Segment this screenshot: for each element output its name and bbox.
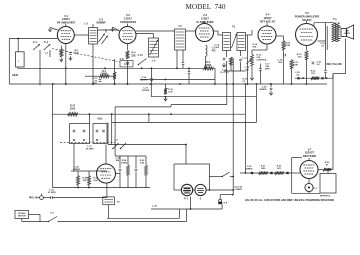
svg-text:SPKR: SPKR bbox=[344, 33, 350, 35]
label R47 2200 bbox=[70, 105, 76, 111]
junction bus x180 bbox=[179, 83, 181, 85]
wire corner y209 up bbox=[190, 197, 192, 210]
svg-text:T-2: T-2 bbox=[178, 26, 182, 28]
svg-text:4.7K: 4.7K bbox=[168, 90, 173, 93]
svg-text:1 MEG: 1 MEG bbox=[121, 163, 128, 165]
wire V7 left v bbox=[291, 157, 293, 193]
wire V4 bottom bbox=[266, 44, 268, 50]
svg-text:470: 470 bbox=[75, 52, 80, 55]
note capacitors bbox=[245, 198, 334, 202]
label C38 bbox=[116, 158, 122, 163]
label C30 20MFD bbox=[73, 167, 81, 172]
label AER bbox=[12, 73, 19, 77]
resistor R24 bbox=[127, 165, 130, 175]
svg-text:12SK7: 12SK7 bbox=[62, 17, 70, 21]
bandswitch wafer S1A bbox=[70, 124, 90, 144]
wire diode load v bbox=[247, 35, 249, 84]
junction y114 x89 bbox=[89, 113, 91, 115]
ground R10 bbox=[164, 97, 167, 101]
ground C4 bbox=[69, 56, 72, 60]
tube V4 bbox=[258, 26, 276, 44]
wire C18B bottom bbox=[260, 71, 262, 85]
junction bus x291.5 bbox=[291, 83, 293, 85]
wire C15 drop bottom bbox=[151, 81, 153, 84]
wire V6 pin right bbox=[116, 173, 121, 175]
wire motor to bus bbox=[29, 214, 41, 216]
tube V6 bbox=[97, 164, 116, 183]
wire V1 top bbox=[65, 24, 67, 27]
wire R28 bottom bbox=[77, 185, 79, 188]
switch S2B bbox=[120, 143, 126, 149]
wire L4 top bbox=[153, 34, 155, 39]
svg-text:T-4: T-4 bbox=[333, 18, 337, 21]
junction bus x306.5 bbox=[306, 83, 308, 85]
junction y187 x89 bbox=[88, 187, 90, 189]
output transformer T4 core bbox=[334, 23, 337, 42]
svg-text:50L6GT: 50L6GT bbox=[302, 18, 312, 22]
wire V6 bottom bbox=[106, 183, 108, 198]
svg-text:R-3: R-3 bbox=[102, 71, 106, 73]
wire wafer drop left bbox=[73, 152, 75, 171]
wire motor bottom bbox=[21, 219, 23, 222]
label R14 bbox=[285, 42, 291, 48]
junction bus x127.5 bbox=[127, 83, 129, 85]
junction chain3 bbox=[287, 172, 289, 174]
junction plug bbox=[232, 194, 234, 196]
junction bus x245.4 bbox=[245, 83, 247, 85]
tube V7 bbox=[300, 161, 318, 179]
junction bus x150.5 bbox=[150, 83, 152, 85]
junction bus x65.8 bbox=[65, 83, 67, 85]
label R4 bbox=[131, 52, 136, 58]
pilot lamp P3 bbox=[305, 183, 313, 191]
wire V5 screen to T4 bbox=[318, 40, 326, 42]
capacitor C31 bbox=[51, 196, 53, 199]
svg-text:470K: 470K bbox=[293, 64, 299, 67]
svg-text:C-3: C-3 bbox=[45, 53, 49, 55]
junction switch row end bbox=[185, 144, 187, 146]
wire V7 in bbox=[292, 172, 300, 174]
wire T3 out v bbox=[251, 30, 253, 35]
svg-text:L-3: L-3 bbox=[84, 23, 88, 26]
junction y114 x112 bbox=[111, 113, 113, 115]
wire x233 vertical bbox=[232, 58, 234, 195]
label V5 50L6GT POWER AMPLIFIER bbox=[295, 11, 320, 22]
wire V1 bottom bbox=[65, 44, 67, 85]
ground R1 bbox=[60, 58, 63, 62]
wire R16 bus bbox=[291, 69, 293, 85]
wire x53 vertical bbox=[52, 84, 54, 188]
label C8 bbox=[120, 58, 125, 61]
wire under T3 h bbox=[224, 70, 245, 72]
label C17 bbox=[242, 58, 248, 60]
capacitor in wafer 1b bbox=[83, 130, 86, 132]
svg-text:3-30: 3-30 bbox=[124, 63, 129, 66]
junction y69 x141 bbox=[141, 67, 143, 69]
wire R24 top bbox=[127, 156, 129, 165]
switch S1 osc bbox=[138, 59, 147, 66]
wire lamp left h bbox=[174, 189, 181, 191]
svg-text:L-4: L-4 bbox=[152, 60, 156, 63]
tube V1 bbox=[57, 27, 74, 44]
wire S5 h bbox=[209, 176, 222, 178]
svg-text:VOL: VOL bbox=[97, 118, 103, 121]
svg-text:.05 MFD: .05 MFD bbox=[85, 149, 94, 151]
junction x148 bbox=[148, 113, 150, 115]
speaker field coil box bbox=[320, 174, 336, 194]
svg-text:100: 100 bbox=[216, 47, 220, 49]
resistor R4 bbox=[126, 51, 129, 59]
label P2 bbox=[199, 199, 202, 201]
wire C22 bottom bbox=[325, 73, 327, 78]
loop antenna L1 bbox=[16, 52, 25, 67]
junction y79 x165 bbox=[165, 79, 167, 81]
title MODEL 740 bbox=[186, 3, 226, 11]
wire V2 plate to T2 bbox=[136, 30, 175, 32]
svg-text:470K: 470K bbox=[285, 44, 291, 47]
padder capacitor box C12 bbox=[120, 61, 133, 67]
junction chain0 bbox=[245, 172, 247, 174]
wire V7 bottom h bbox=[292, 192, 320, 194]
svg-text:R-9: R-9 bbox=[206, 62, 210, 64]
capacitor C13A bbox=[182, 63, 185, 65]
wire T4 lead a bbox=[325, 23, 327, 70]
wire motor drop bbox=[39, 215, 41, 222]
wire corner y218 up bbox=[179, 209, 181, 218]
phono jack J1 bbox=[38, 194, 44, 200]
wire plug bottom stub bbox=[221, 204, 223, 209]
label C17B 005MFD bbox=[265, 64, 270, 71]
label C6 300MMF bbox=[96, 19, 106, 25]
wire x245 vertical bbox=[244, 84, 246, 173]
label R9 47000 bbox=[205, 62, 212, 67]
wire V3 plate to T3 bbox=[214, 30, 219, 32]
svg-text:12SA7: 12SA7 bbox=[124, 16, 132, 20]
label SPKR FLD bbox=[320, 196, 331, 198]
label V6 notes bbox=[85, 146, 94, 151]
junction bus x114.5 bbox=[114, 83, 116, 85]
wire B+ vertical bbox=[332, 74, 334, 170]
wire V7 to lamp bbox=[308, 179, 310, 184]
wire V5 plate up bbox=[313, 23, 315, 26]
svg-text:CONTROL: CONTROL bbox=[257, 60, 268, 62]
wire lamp link bbox=[193, 189, 195, 191]
wire bottom line y209 bbox=[151, 208, 222, 210]
wire V2 bus bbox=[127, 64, 129, 85]
wire AC bus bbox=[58, 221, 187, 223]
svg-text:P-3: P-3 bbox=[313, 188, 317, 190]
capacitor in wafer 1a bbox=[73, 130, 76, 132]
resistor R9 bbox=[203, 67, 213, 70]
label TB chart bbox=[235, 187, 243, 192]
label C11 bbox=[92, 78, 98, 85]
svg-text:r: r bbox=[18, 60, 19, 63]
wire C20 stub bbox=[270, 84, 272, 87]
svg-text:.02: .02 bbox=[321, 46, 325, 48]
wire V1 cathode left bbox=[50, 28, 58, 31]
wire T3 primary bottom bbox=[226, 51, 228, 58]
label S3 bbox=[50, 213, 54, 215]
junction C1 bus bbox=[39, 83, 41, 85]
wire plug h bbox=[220, 194, 233, 196]
junction chain1 bbox=[251, 172, 253, 174]
wire V6 top bbox=[105, 145, 107, 165]
junction R3 bus bbox=[114, 83, 116, 85]
wire lamp feed v bbox=[185, 145, 187, 165]
resistor R19 bbox=[305, 51, 308, 60]
wire R5 bottom bbox=[114, 79, 116, 84]
label L4 bbox=[152, 60, 156, 63]
IF transformer T3 primary bbox=[223, 33, 231, 51]
tube V5 bbox=[296, 24, 318, 46]
wire V2 top bbox=[127, 24, 129, 27]
svg-text:AER: AER bbox=[12, 73, 19, 77]
svg-text:L-20: L-20 bbox=[152, 206, 157, 208]
svg-text:C-2: C-2 bbox=[44, 41, 49, 44]
pilot lamp P1 bbox=[181, 184, 192, 195]
svg-text:T-3: T-3 bbox=[232, 27, 236, 29]
label R30 47 bbox=[325, 162, 330, 167]
wire lamp right bbox=[206, 189, 233, 191]
wire x148 stub bbox=[148, 114, 150, 122]
svg-text:8.2K: 8.2K bbox=[94, 180, 99, 182]
capacitor in wafer 2b bbox=[102, 130, 105, 132]
label PHONO MOTOR bbox=[18, 213, 26, 218]
svg-text:S-2: S-2 bbox=[114, 140, 118, 142]
wire main bus B- bbox=[9, 83, 327, 85]
label C13 bbox=[138, 55, 144, 57]
svg-text:C-13: C-13 bbox=[138, 55, 144, 57]
wire x151 drop bbox=[150, 84, 152, 97]
svg-text:R-14: R-14 bbox=[285, 42, 291, 45]
wire C18B top bbox=[260, 64, 262, 69]
junction antenna bbox=[17, 38, 19, 40]
svg-text:20MFD: 20MFD bbox=[259, 89, 267, 91]
phono osc coil T6 box bbox=[103, 197, 115, 205]
wire C37 top bbox=[135, 156, 137, 168]
label C14 bbox=[140, 76, 148, 82]
variable capacitor C2 bbox=[44, 45, 51, 51]
label C1 bbox=[33, 41, 38, 44]
label R32 bbox=[277, 166, 282, 171]
svg-text:.01 MFD: .01 MFD bbox=[47, 192, 56, 194]
trimmer capacitor C8 bbox=[150, 40, 159, 55]
svg-text:V-3: V-3 bbox=[203, 13, 207, 17]
svg-text:RECTIFIER: RECTIFIER bbox=[303, 155, 316, 158]
resistor R32 bbox=[275, 171, 284, 174]
resistor R29 bbox=[88, 176, 91, 185]
junction chain2 bbox=[271, 172, 273, 174]
label R13 VOL CONTROL bbox=[257, 55, 268, 62]
svg-text:R-16: R-16 bbox=[293, 62, 299, 64]
junction T1 bus bbox=[92, 83, 94, 85]
wire lamp feed h bbox=[174, 163, 209, 165]
wire R3 drop bbox=[114, 59, 116, 72]
label T6 bbox=[117, 201, 121, 203]
svg-text:CONVERTER: CONVERTER bbox=[120, 20, 136, 24]
label C12 3-30 bbox=[124, 63, 129, 66]
wire C1 down bbox=[39, 50, 41, 84]
wire R11 bus bbox=[230, 65, 232, 71]
gang dashed link top bbox=[52, 49, 120, 63]
wire C15 drop top bbox=[151, 68, 153, 78]
ground C16 bbox=[222, 63, 225, 67]
label L5 470 bbox=[212, 47, 217, 53]
wire T6 down bbox=[108, 205, 110, 219]
wire V7 top bbox=[308, 158, 310, 161]
wire field h bbox=[333, 73, 346, 75]
svg-text:C-14: C-14 bbox=[141, 76, 147, 79]
wire T4 to speaker top bbox=[338, 26, 341, 28]
trimmer capacitor C7 bbox=[102, 36, 108, 44]
wire V5 top bbox=[306, 21, 308, 24]
wire col bottom bbox=[119, 172, 121, 188]
volume control arrow bbox=[247, 60, 252, 65]
wire R3 right bbox=[109, 75, 115, 77]
wire bus y122 bbox=[112, 121, 257, 123]
wire T3 in h bbox=[218, 34, 223, 36]
label C20 20MFD bbox=[259, 87, 267, 92]
junction AVC x105 bbox=[104, 67, 106, 69]
capacitor C20 bbox=[270, 88, 273, 90]
wire L4 h bbox=[136, 33, 154, 35]
wire R13 top bbox=[251, 50, 253, 55]
wire x108 corner bbox=[107, 122, 109, 144]
junction bypass b bbox=[326, 77, 328, 79]
junction lamp right bbox=[232, 189, 234, 191]
junction y114 x171 bbox=[170, 113, 172, 115]
resistor R22 bbox=[311, 77, 319, 80]
junction bus x93 bbox=[92, 83, 94, 85]
label R29 bbox=[94, 178, 99, 183]
label T4 bbox=[333, 18, 337, 21]
label R28 bbox=[83, 178, 88, 183]
label V7 35Z5 RECTIFIER bbox=[303, 149, 316, 158]
wire jack to cap bbox=[43, 197, 50, 199]
svg-text:S-3: S-3 bbox=[50, 213, 54, 215]
wire box top bbox=[327, 170, 329, 174]
svg-text:C-21: C-21 bbox=[317, 62, 323, 64]
wire V4 top bbox=[266, 23, 268, 27]
svg-text:MODEL 740: MODEL 740 bbox=[186, 3, 226, 11]
pilot lamp P2 bbox=[195, 184, 206, 195]
ground V1 grid bbox=[48, 28, 51, 32]
svg-text:-2: -2 bbox=[199, 199, 202, 201]
wire R19 bus bbox=[306, 60, 308, 85]
resistor R28 bbox=[77, 176, 80, 185]
svg-text:10000: 10000 bbox=[101, 74, 108, 76]
wire cap to V6 bbox=[52, 197, 107, 199]
junction bus x233.2 bbox=[232, 83, 234, 85]
ground C20 bbox=[269, 91, 272, 95]
bandswitch wafer S1B bbox=[93, 124, 107, 144]
wire R26 top bbox=[145, 156, 147, 165]
label R24 1MEG bbox=[121, 159, 128, 165]
wire bypass line bbox=[295, 77, 333, 79]
svg-text:10K: 10K bbox=[83, 180, 87, 182]
wire T1 top h bbox=[74, 34, 88, 36]
svg-text:300: 300 bbox=[116, 160, 120, 162]
capacitor C22 bbox=[324, 71, 327, 73]
label R18 bbox=[243, 79, 248, 83]
svg-text:2200: 2200 bbox=[70, 108, 76, 111]
wire R28 top bbox=[77, 171, 79, 176]
svg-text:VALUE OF ALL CAPACITORS ARE MM: VALUE OF ALL CAPACITORS ARE MMF UNLESS O… bbox=[245, 198, 334, 202]
svg-text:150: 150 bbox=[311, 73, 315, 75]
switch S2A bbox=[112, 143, 118, 149]
wire x115 to col bbox=[114, 145, 116, 157]
wire heater bus y104 bbox=[171, 104, 227, 106]
wire switch row bbox=[108, 144, 186, 146]
IF transformer T2 bbox=[175, 29, 186, 50]
capacitor C37 bbox=[135, 169, 138, 171]
wire x112 vertical bbox=[111, 114, 113, 144]
volume control R13 bbox=[251, 55, 254, 66]
capacitor C23 bbox=[297, 77, 300, 79]
wire R14 top bbox=[283, 36, 285, 41]
junction V1 bus bbox=[65, 83, 67, 85]
IF transformer T3 secondary bbox=[237, 33, 246, 51]
wire T2 bottom bbox=[176, 50, 178, 68]
wire R3 left bbox=[85, 75, 99, 77]
resistor R14 bbox=[282, 41, 285, 50]
wire T3 link bbox=[246, 34, 253, 36]
wire heater bus y97 bbox=[151, 96, 256, 98]
capacitor C35 bbox=[251, 172, 254, 174]
wire stub x189 bbox=[188, 74, 190, 84]
svg-text:3.3K: 3.3K bbox=[140, 163, 145, 165]
capacitor C16 bbox=[223, 58, 226, 60]
trimmer T3 bbox=[232, 34, 237, 48]
wire antenna to loop bbox=[17, 39, 19, 52]
junction bus x271 bbox=[270, 83, 272, 85]
capacitor C16B bbox=[188, 72, 191, 74]
capacitor C11 bbox=[99, 80, 102, 82]
junction AVC V1 bbox=[65, 67, 67, 69]
label R12 bbox=[253, 44, 258, 49]
label C21 .02MFD bbox=[317, 62, 323, 67]
capacitor C21 bbox=[312, 62, 315, 64]
label R31 1200 bbox=[261, 166, 266, 171]
svg-text:.005: .005 bbox=[278, 62, 283, 64]
gang dashed link bottom bbox=[60, 141, 115, 143]
resistor R31 bbox=[259, 171, 268, 174]
resistor R1 bbox=[60, 49, 63, 57]
svg-text:L-17: L-17 bbox=[87, 146, 92, 148]
capacitor C33 bbox=[119, 169, 122, 171]
label C31 .01MFD bbox=[47, 190, 56, 195]
wire C16 leg bbox=[226, 61, 228, 84]
wire bypass step bbox=[332, 74, 334, 79]
svg-text:PHO JK: PHO JK bbox=[29, 197, 38, 199]
wire R10 top bbox=[165, 84, 167, 88]
label L19 CHOKE bbox=[142, 87, 150, 92]
junction wafer3 bbox=[96, 139, 98, 141]
wire speaker field drop bbox=[345, 39, 347, 74]
label R19 bbox=[297, 54, 303, 59]
wire antenna left bbox=[8, 39, 10, 85]
junction bus x256.5 bbox=[256, 83, 258, 85]
wire wafer drop2 bbox=[88, 114, 90, 123]
wire wafer drop1 bbox=[73, 144, 75, 153]
junction y187 x78 bbox=[77, 187, 79, 189]
ground V2 left bbox=[111, 27, 114, 31]
wire R29 top bbox=[88, 171, 90, 176]
svg-text:CHOKE: CHOKE bbox=[142, 90, 150, 92]
label T2 bbox=[178, 26, 182, 28]
trimmer capacitor C6 bbox=[99, 34, 105, 42]
label R1 bbox=[75, 50, 80, 56]
